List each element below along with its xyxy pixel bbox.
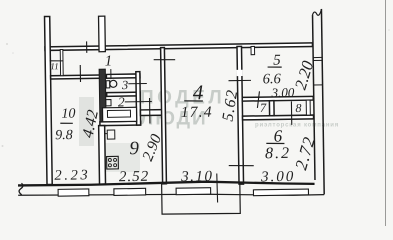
hallway bottom wall <box>51 75 101 79</box>
balcony <box>162 182 241 214</box>
watermark blobs <box>79 97 94 146</box>
svg-text:3.00: 3.00 <box>260 169 295 186</box>
window room10 <box>58 189 89 196</box>
scan page edge <box>385 0 387 226</box>
tick room4 left wall top <box>154 58 176 61</box>
svg-text:2.23: 2.23 <box>54 167 90 184</box>
top wall <box>45 43 313 51</box>
bottom wall outer line <box>18 191 324 200</box>
wc bath divider <box>107 92 141 96</box>
closet door tick <box>50 60 64 63</box>
tick room4 wall lower <box>229 164 254 167</box>
shaft column <box>99 16 106 52</box>
cells divider <box>269 101 274 116</box>
bath door line <box>125 100 152 102</box>
room4 right wall <box>237 46 244 184</box>
sanitary left bar <box>99 69 106 126</box>
tick room4 wall upper <box>228 79 250 81</box>
svg-text:3.10: 3.10 <box>180 169 213 185</box>
sanitary bottom wall <box>100 121 141 125</box>
bath sink <box>106 100 111 106</box>
room5 underline <box>268 66 282 69</box>
cell8 right wall <box>306 100 310 115</box>
corridor kitchen wall <box>140 110 162 116</box>
balcony door tick <box>216 173 219 202</box>
svg-text:риэлторская компания: риэлторская компания <box>255 123 339 129</box>
right wall break <box>312 9 321 15</box>
room5 bottom wall <box>242 96 313 101</box>
wc door line <box>128 83 146 85</box>
room4 underline <box>184 100 203 103</box>
window kitchen <box>114 188 146 195</box>
cell8 door tick <box>290 101 292 124</box>
bottom wall left break <box>19 183 23 195</box>
svg-text:17.4: 17.4 <box>181 104 213 121</box>
svg-text:10: 10 <box>61 106 75 121</box>
kitchen door leaf <box>149 98 151 123</box>
svg-text:7: 7 <box>260 101 267 115</box>
svg-text:6: 6 <box>274 127 283 146</box>
right wall connector b <box>314 84 323 86</box>
right wall outer line <box>321 9 324 194</box>
svg-text:3: 3 <box>121 78 128 92</box>
scan speckles <box>6 43 8 45</box>
bottom wall inner line <box>18 180 315 188</box>
svg-text:8: 8 <box>295 101 301 115</box>
wc top wall <box>106 74 140 78</box>
room5 stub <box>251 46 255 54</box>
room4 room5 door gap <box>237 70 243 76</box>
svg-text:2.52: 2.52 <box>119 169 149 185</box>
svg-text:1: 1 <box>105 53 113 69</box>
entrance door tick <box>86 41 88 52</box>
toilet <box>106 81 110 88</box>
bathtub <box>102 107 136 122</box>
svg-text:2: 2 <box>118 94 125 109</box>
cells bottom wall <box>243 115 314 120</box>
room5 door tick <box>257 91 260 108</box>
svg-text:5: 5 <box>273 53 281 69</box>
room4 left wall <box>161 48 167 184</box>
left outer wall <box>45 16 53 184</box>
closet divider <box>60 49 63 75</box>
kitchen sink <box>107 130 115 139</box>
sanitary right wall <box>136 72 141 125</box>
room10 underline <box>60 122 73 124</box>
right wall connector a <box>313 56 322 58</box>
room6 underline <box>266 142 284 145</box>
wc top door tick <box>110 69 112 79</box>
right wall inner line <box>313 15 315 180</box>
hallway door tick <box>79 65 81 82</box>
svg-text:9.8: 9.8 <box>55 128 73 143</box>
room10 kitchen wall <box>99 126 106 185</box>
stove <box>107 156 119 169</box>
svg-text:8.2: 8.2 <box>265 145 291 162</box>
svg-text:9: 9 <box>129 138 139 159</box>
window room4 <box>176 188 211 195</box>
svg-text:11: 11 <box>50 61 58 71</box>
window room6 <box>253 189 308 196</box>
